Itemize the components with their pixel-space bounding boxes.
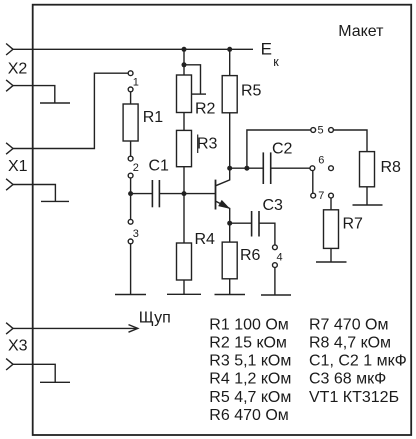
svg-text:R2 15 кОм: R2 15 кОм [209,335,287,352]
svg-text:R1 100 Ом: R1 100 Ом [209,316,288,333]
svg-text:R7 470 Ом: R7 470 Ом [309,316,388,333]
svg-text:к: к [273,55,279,69]
svg-text:C3 68 мкФ: C3 68 мкФ [309,371,386,388]
svg-text:R5 4,7 кОм: R5 4,7 кОм [209,389,291,406]
svg-text:Щуп: Щуп [139,310,171,327]
svg-text:4: 4 [277,251,283,263]
svg-text:C2: C2 [272,141,293,158]
svg-text:R4: R4 [195,231,216,248]
svg-text:R1: R1 [143,109,164,126]
svg-text:R7: R7 [343,216,364,233]
svg-text:Е: Е [261,39,272,58]
svg-text:Макет: Макет [338,23,384,40]
svg-text:R5: R5 [241,83,262,100]
svg-text:R2: R2 [195,101,216,118]
svg-text:C1, C2 1 мкФ: C1, C2 1 мкФ [309,353,407,370]
svg-text:R4 1,2 кОм: R4 1,2 кОм [209,371,291,388]
svg-text:6: 6 [318,154,324,166]
svg-text:R8: R8 [381,159,402,176]
svg-text:X2: X2 [8,60,28,77]
svg-text:5: 5 [318,124,324,136]
svg-text:2: 2 [133,162,139,174]
svg-text:R3: R3 [197,135,218,152]
svg-text:3: 3 [133,228,139,240]
svg-text:R6 470 Ом: R6 470 Ом [209,407,288,424]
svg-text:X1: X1 [8,158,28,175]
svg-text:R6: R6 [240,247,261,264]
svg-text:R8 4,7 кОм: R8 4,7 кОм [309,335,391,352]
svg-text:VT1 КТ312Б: VT1 КТ312Б [309,389,399,406]
svg-text:C3: C3 [263,197,284,214]
svg-text:7: 7 [318,190,324,202]
svg-text:C1: C1 [149,157,170,174]
svg-text:X3: X3 [8,338,28,355]
svg-text:1: 1 [133,76,139,88]
svg-text:R3 5,1 кОм: R3 5,1 кОм [209,353,291,370]
